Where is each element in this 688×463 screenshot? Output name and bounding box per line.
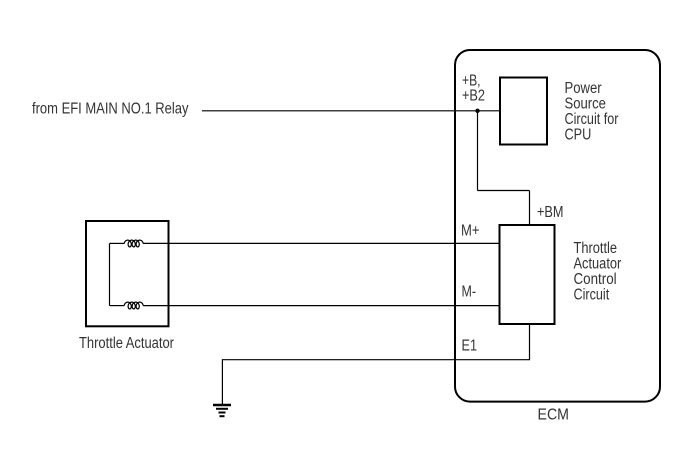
svg-text:from EFI MAIN NO.1 Relay: from EFI MAIN NO.1 Relay xyxy=(32,100,189,117)
svg-text:E1: E1 xyxy=(462,338,478,355)
svg-text:+B2: +B2 xyxy=(462,87,485,104)
box Throttle Actuator xyxy=(86,221,169,326)
inductor coil upper (motor winding) xyxy=(124,240,143,247)
svg-text:Power: Power xyxy=(565,80,602,97)
wire +BM down into Throttle Actuator Control Circuit xyxy=(529,191,531,226)
box Power Source Circuit for CPU xyxy=(500,78,547,145)
svg-text:Throttle: Throttle xyxy=(574,240,618,257)
svg-text:Circuit: Circuit xyxy=(574,286,610,303)
svg-text:M-: M- xyxy=(462,284,477,301)
svg-text:ECM: ECM xyxy=(538,407,570,424)
wire M+ from coil to ECM xyxy=(143,242,499,244)
svg-text:+BM: +BM xyxy=(537,204,564,221)
box Throttle Actuator Control Circuit xyxy=(500,225,555,324)
svg-text:Source: Source xyxy=(565,96,606,113)
ECM enclosure box xyxy=(455,50,660,402)
wire M- from coil to ECM xyxy=(143,305,499,307)
ground symbol xyxy=(213,405,231,416)
wire E1 from ground to ECM xyxy=(222,324,529,405)
inductor coil lower (motor winding) xyxy=(124,302,143,309)
svg-text:Control: Control xyxy=(574,271,617,288)
svg-text:CPU: CPU xyxy=(565,126,592,143)
wire coil left leads xyxy=(110,242,125,244)
wire horizontal to +BM column xyxy=(478,190,530,192)
wire joining the two coils xyxy=(109,243,111,305)
svg-text:Throttle Actuator: Throttle Actuator xyxy=(79,335,174,352)
node junction at +B xyxy=(475,109,479,113)
wire +B junction down xyxy=(477,111,479,191)
wire from EFI MAIN NO.1 Relay to +B/+B2 pin xyxy=(202,110,499,112)
svg-text:M+: M+ xyxy=(461,223,480,240)
